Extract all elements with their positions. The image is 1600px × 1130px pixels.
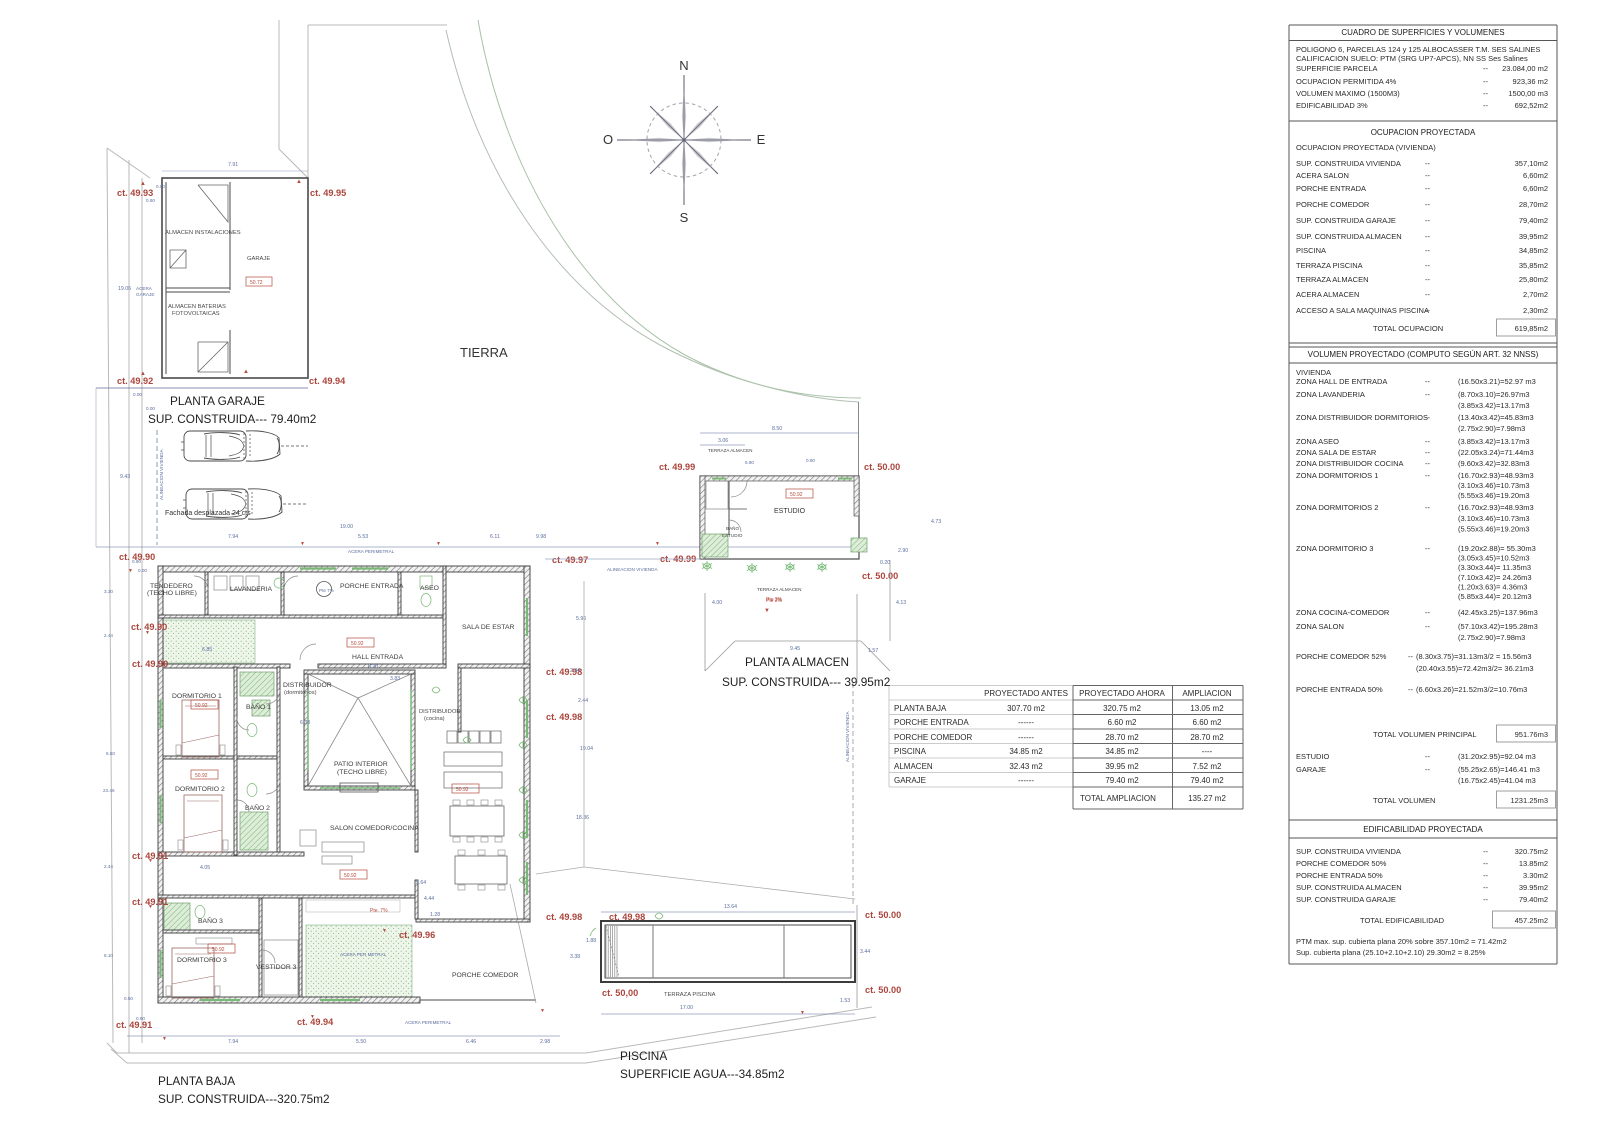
svg-text:VOLUMEN PROYECTADO (COMPUTO SE: VOLUMEN PROYECTADO (COMPUTO SEGÚN ART. 3…: [1308, 350, 1539, 359]
svg-text:23.084,00 m2: 23.084,00 m2: [1502, 64, 1548, 73]
svg-text:3.30: 3.30: [104, 589, 113, 594]
svg-text:39.95 m2: 39.95 m2: [1105, 762, 1139, 771]
svg-text:7.94: 7.94: [228, 1039, 238, 1045]
svg-text:PORCHE COMEDOR 50%: PORCHE COMEDOR 50%: [1296, 859, 1387, 868]
svg-text:3.06: 3.06: [718, 438, 728, 444]
svg-text:357,10m2: 357,10m2: [1515, 159, 1548, 168]
svg-text:34,85m2: 34,85m2: [1519, 246, 1548, 255]
svg-text:(42.45x3.25)=137.96m3: (42.45x3.25)=137.96m3: [1458, 608, 1538, 617]
svg-text:ZONA SALA DE ESTAR: ZONA SALA DE ESTAR: [1296, 448, 1377, 457]
svg-text:AMPLIACION: AMPLIACION: [1182, 689, 1232, 698]
svg-text:--: --: [1483, 883, 1488, 892]
svg-text:Fachada desplazada 24 cts: Fachada desplazada 24 cts: [165, 510, 251, 517]
svg-text:6.85: 6.85: [202, 647, 212, 653]
svg-text:39.95m2: 39.95m2: [1519, 883, 1548, 892]
svg-text:0.00: 0.00: [156, 184, 165, 189]
svg-text:--: --: [1408, 685, 1413, 694]
svg-text:ALMACEN INSTALACIONES: ALMACEN INSTALACIONES: [165, 230, 241, 236]
svg-text:13.64: 13.64: [724, 904, 737, 910]
svg-text:ZONA DISTRIBUIDOR DORMITORIOS: ZONA DISTRIBUIDOR DORMITORIOS: [1296, 413, 1428, 422]
svg-text:GARAJE: GARAJE: [894, 776, 926, 785]
svg-text:923,36 m2: 923,36 m2: [1513, 77, 1548, 86]
svg-text:(cocina): (cocina): [424, 716, 445, 722]
svg-text:3.44: 3.44: [860, 949, 870, 955]
svg-text:320.75 m2: 320.75 m2: [1103, 704, 1141, 713]
svg-text:(16.70x2.93)=48.93m3: (16.70x2.93)=48.93m3: [1458, 503, 1534, 512]
svg-text:▼: ▼: [310, 1014, 315, 1020]
svg-text:3.83: 3.83: [390, 676, 400, 682]
svg-text:(57.10x3.42)=195.28m3: (57.10x3.42)=195.28m3: [1458, 622, 1538, 631]
svg-text:PLANTA ALMACEN: PLANTA ALMACEN: [745, 655, 849, 669]
svg-text:--: --: [1425, 275, 1430, 284]
svg-text:TERRAZA PISCINA: TERRAZA PISCINA: [1296, 261, 1363, 270]
svg-text:FOTOVOLTAICAS: FOTOVOLTAICAS: [172, 311, 220, 317]
svg-text:▼: ▼: [540, 1008, 545, 1014]
svg-text:GARAJE: GARAJE: [136, 292, 154, 297]
svg-text:PROYECTADO AHORA: PROYECTADO AHORA: [1079, 689, 1165, 698]
svg-text:ASEO: ASEO: [420, 585, 439, 592]
svg-text:SUP. CONSTRUIDA ALMACEN: SUP. CONSTRUIDA ALMACEN: [1296, 883, 1402, 892]
svg-text:1.28: 1.28: [430, 912, 440, 918]
svg-text:TOTAL OCUPACION: TOTAL OCUPACION: [1373, 324, 1443, 333]
svg-text:6.20: 6.20: [368, 664, 378, 670]
svg-text:ZONA DORMITORIO 3: ZONA DORMITORIO 3: [1296, 544, 1373, 553]
svg-text:Sup. cubierta plana (25.10+2.1: Sup. cubierta plana (25.10+2.10+2.10) 29…: [1296, 948, 1486, 957]
svg-text:--: --: [1425, 503, 1430, 512]
svg-text:N: N: [679, 58, 688, 73]
svg-text:ct. 49.97: ct. 49.97: [552, 555, 588, 565]
svg-text:DORMITORIO 2: DORMITORIO 2: [175, 786, 225, 793]
svg-text:50.92: 50.92: [195, 773, 208, 779]
svg-text:PORCHE ENTRADA 50%: PORCHE ENTRADA 50%: [1296, 685, 1383, 694]
svg-text:ACERA PERIMETRAL: ACERA PERIMETRAL: [405, 1020, 452, 1025]
svg-text:ct. 50.00: ct. 50.00: [865, 985, 901, 995]
svg-text:(20.40x3.55)=72.42m3/2= 36.21m: (20.40x3.55)=72.42m3/2= 36.21m3: [1416, 664, 1534, 673]
svg-text:(7.10x3.42)= 24.26m3: (7.10x3.42)= 24.26m3: [1458, 573, 1532, 582]
svg-text:▼: ▼: [148, 858, 153, 864]
svg-text:50.92: 50.92: [790, 492, 803, 498]
svg-text:50.92: 50.92: [456, 787, 469, 793]
svg-text:VOLUMEN MAXIMO (1500M3): VOLUMEN MAXIMO (1500M3): [1296, 89, 1400, 98]
svg-text:(22.05x3.24)=71.44m3: (22.05x3.24)=71.44m3: [1458, 448, 1534, 457]
svg-text:TIERRA: TIERRA: [460, 345, 508, 360]
svg-text:(8.70x3.10)=26.97m3: (8.70x3.10)=26.97m3: [1458, 390, 1530, 399]
svg-text:9.45: 9.45: [790, 646, 800, 652]
svg-text:0.90: 0.90: [146, 198, 155, 203]
svg-text:SUP. CONSTRUIDA VIVIENDA: SUP. CONSTRUIDA VIVIENDA: [1296, 159, 1401, 168]
svg-text:39,95m2: 39,95m2: [1519, 232, 1548, 241]
svg-text:PORCHE COMEDOR: PORCHE COMEDOR: [1296, 200, 1370, 209]
svg-text:6.46: 6.46: [466, 1039, 476, 1045]
svg-text:9.43: 9.43: [120, 474, 130, 480]
svg-text:TERRAZA ALMACEN: TERRAZA ALMACEN: [708, 448, 752, 453]
svg-text:--: --: [1483, 89, 1488, 98]
svg-text:ct. 50,00: ct. 50,00: [602, 988, 638, 998]
svg-text:(3.85x3.42)=13.17m3: (3.85x3.42)=13.17m3: [1458, 437, 1530, 446]
svg-text:--: --: [1425, 544, 1430, 553]
svg-text:SUP. CONSTRUIDA---320.75m2: SUP. CONSTRUIDA---320.75m2: [158, 1092, 330, 1106]
svg-text:1.53: 1.53: [840, 998, 850, 1004]
svg-text:0.00: 0.00: [138, 568, 147, 573]
svg-text:BAÑO 1: BAÑO 1: [246, 702, 271, 711]
svg-text:SUP. CONSTRUIDA--- 79.40m2: SUP. CONSTRUIDA--- 79.40m2: [148, 412, 316, 426]
svg-text:5.64: 5.64: [416, 880, 426, 886]
svg-text:(16.50x3.21)=52.97 m3: (16.50x3.21)=52.97 m3: [1458, 377, 1536, 386]
svg-text:--: --: [1425, 377, 1430, 386]
svg-text:ct. 49.98: ct. 49.98: [546, 912, 582, 922]
svg-text:2.44: 2.44: [104, 633, 113, 638]
svg-text:PISCINA: PISCINA: [620, 1049, 667, 1063]
svg-text:ESTUDIO: ESTUDIO: [722, 533, 743, 538]
svg-text:ct. 49.94: ct. 49.94: [297, 1017, 334, 1027]
svg-text:(2.75x2.90)=7.98m3: (2.75x2.90)=7.98m3: [1458, 424, 1525, 433]
svg-text:951.76m3: 951.76m3: [1515, 730, 1548, 739]
svg-text:0.00: 0.00: [146, 406, 155, 411]
svg-text:ZONA DORMITORIOS 1: ZONA DORMITORIOS 1: [1296, 471, 1378, 480]
svg-text:PISCINA: PISCINA: [894, 747, 927, 756]
svg-text:DISTRIBUIDOR: DISTRIBUIDOR: [419, 709, 461, 715]
svg-text:ESTUDIO: ESTUDIO: [1296, 752, 1330, 761]
svg-text:OCUPACION PROYECTADA (VIVIENDA: OCUPACION PROYECTADA (VIVIENDA): [1296, 143, 1436, 152]
svg-text:SUP. CONSTRUIDA GARAJE: SUP. CONSTRUIDA GARAJE: [1296, 895, 1396, 904]
svg-text:BAÑO 3: BAÑO 3: [198, 916, 223, 925]
svg-text:17.00: 17.00: [680, 1005, 693, 1011]
svg-text:--: --: [1483, 101, 1488, 110]
svg-text:▼: ▼: [382, 928, 387, 934]
svg-text:▼: ▼: [436, 541, 441, 547]
svg-text:(3.85x3.42)=13.17m3: (3.85x3.42)=13.17m3: [1458, 401, 1530, 410]
svg-text:0.90: 0.90: [132, 559, 141, 564]
svg-text:6,60m2: 6,60m2: [1523, 171, 1548, 180]
svg-text:(13.40x3.42)=45.83m3: (13.40x3.42)=45.83m3: [1458, 413, 1534, 422]
svg-text:ct. 49.99: ct. 49.99: [659, 462, 695, 472]
svg-text:SUP. CONSTRUIDA ALMACEN: SUP. CONSTRUIDA ALMACEN: [1296, 232, 1402, 241]
svg-text:5.50: 5.50: [356, 1039, 366, 1045]
svg-text:ALINEACION VIVIENDA: ALINEACION VIVIENDA: [607, 567, 658, 572]
svg-text:50.92: 50.92: [195, 703, 208, 709]
svg-text:LAVANDERIA: LAVANDERIA: [230, 586, 273, 593]
svg-text:ACERA ALMACEN: ACERA ALMACEN: [1296, 290, 1359, 299]
svg-text:4.00: 4.00: [712, 600, 722, 606]
svg-text:9.98: 9.98: [536, 534, 546, 540]
svg-text:6.90: 6.90: [745, 460, 754, 465]
svg-text:ZONA DORMITORIOS 2: ZONA DORMITORIOS 2: [1296, 503, 1378, 512]
svg-text:19.04: 19.04: [580, 746, 593, 752]
svg-text:(5.55x3.46)=19.20m3: (5.55x3.46)=19.20m3: [1458, 491, 1530, 500]
svg-text:E: E: [757, 132, 766, 147]
svg-text:SUPERFICIE PARCELA: SUPERFICIE PARCELA: [1296, 64, 1378, 73]
svg-text:PORCHE ENTRADA 50%: PORCHE ENTRADA 50%: [1296, 871, 1383, 880]
svg-text:▼: ▼: [800, 1010, 805, 1016]
svg-text:2.44: 2.44: [104, 864, 113, 869]
svg-text:--: --: [1483, 847, 1488, 856]
svg-text:Pte. 7%: Pte. 7%: [370, 908, 388, 914]
svg-text:EDIFICABILIDAD 3%: EDIFICABILIDAD 3%: [1296, 101, 1368, 110]
svg-text:--: --: [1483, 859, 1488, 868]
svg-text:Pte 7%: Pte 7%: [319, 588, 334, 593]
svg-text:------: ------: [1018, 733, 1034, 742]
svg-text:ct. 49.94: ct. 49.94: [309, 376, 346, 386]
svg-text:(2.75x2.90)=7.98m3: (2.75x2.90)=7.98m3: [1458, 633, 1525, 642]
svg-text:EDIFICABILIDAD PROYECTADA: EDIFICABILIDAD PROYECTADA: [1363, 825, 1483, 834]
svg-text:PISCINA: PISCINA: [1296, 246, 1326, 255]
svg-text:0.90: 0.90: [136, 1016, 145, 1021]
svg-text:SUP. CONSTRUIDA GARAJE: SUP. CONSTRUIDA GARAJE: [1296, 216, 1396, 225]
svg-text:--: --: [1425, 246, 1430, 255]
svg-text:ct. 49.90: ct. 49.90: [132, 659, 168, 669]
svg-text:▼: ▼: [145, 630, 150, 636]
svg-text:ct. 49.92: ct. 49.92: [117, 376, 153, 386]
svg-text:19.00: 19.00: [340, 524, 353, 530]
svg-text:--: --: [1425, 622, 1430, 631]
svg-text:ACERA: ACERA: [136, 286, 153, 291]
svg-text:PORCHE ENTRADA: PORCHE ENTRADA: [894, 718, 969, 727]
svg-text:VIVIENDA: VIVIENDA: [1296, 368, 1331, 377]
svg-text:--: --: [1483, 77, 1488, 86]
svg-text:5.96: 5.96: [576, 616, 586, 622]
svg-text:19.06: 19.06: [118, 286, 131, 292]
svg-text:1231.25m3: 1231.25m3: [1510, 796, 1548, 805]
svg-text:ZONA LAVANDERIA: ZONA LAVANDERIA: [1296, 390, 1365, 399]
svg-text:(16.75x2.45)=41.04 m3: (16.75x2.45)=41.04 m3: [1458, 776, 1536, 785]
svg-text:ACERA PER METRAL: ACERA PER METRAL: [340, 952, 387, 957]
svg-text:GARAJE: GARAJE: [247, 256, 270, 262]
svg-text:2.98: 2.98: [540, 1039, 550, 1045]
svg-text:ct. 50.00: ct. 50.00: [862, 571, 898, 581]
svg-text:ALMACEN BATERIAS: ALMACEN BATERIAS: [168, 304, 226, 310]
svg-text:ACCESO A SALA MAQUINAS PISCINA: ACCESO A SALA MAQUINAS PISCINA: [1296, 306, 1429, 315]
svg-text:79.40 m2: 79.40 m2: [1190, 776, 1224, 785]
svg-text:SUPERFICIE AGUA---34.85m2: SUPERFICIE AGUA---34.85m2: [620, 1067, 785, 1081]
svg-text:ZONA SALON: ZONA SALON: [1296, 622, 1344, 631]
svg-text:PORCHE ENTRADA: PORCHE ENTRADA: [1296, 184, 1366, 193]
svg-text:2.44: 2.44: [578, 698, 588, 704]
svg-text:619,85m2: 619,85m2: [1515, 324, 1548, 333]
svg-text:GARAJE: GARAJE: [1296, 765, 1326, 774]
svg-text:6.60 m2: 6.60 m2: [1108, 718, 1137, 727]
svg-text:ct. 50.00: ct. 50.00: [864, 462, 900, 472]
svg-text:PLANTA BAJA: PLANTA BAJA: [158, 1074, 235, 1088]
svg-text:▼: ▼: [764, 608, 770, 614]
svg-text:DISTRIBUIDOR: DISTRIBUIDOR: [283, 682, 332, 689]
svg-text:50.92: 50.92: [212, 947, 225, 953]
svg-text:▼: ▼: [655, 541, 660, 547]
svg-text:ct. 49.93: ct. 49.93: [117, 188, 153, 198]
svg-text:(3.10x3.46)=10.73m3: (3.10x3.46)=10.73m3: [1458, 514, 1530, 523]
svg-text:4.13: 4.13: [896, 600, 906, 606]
svg-text:--: --: [1425, 232, 1430, 241]
svg-text:TOTAL VOLUMEN PRINCIPAL: TOTAL VOLUMEN PRINCIPAL: [1373, 730, 1477, 739]
svg-text:--: --: [1425, 200, 1430, 209]
svg-text:50.92: 50.92: [344, 873, 357, 879]
svg-text:(8.30x3.75)=31.13m3/2 = 15.56m: (8.30x3.75)=31.13m3/2 = 15.56m3: [1416, 652, 1532, 661]
svg-text:BAÑO: BAÑO: [726, 525, 739, 531]
svg-text:28.70 m2: 28.70 m2: [1190, 733, 1224, 742]
svg-text:3.38: 3.38: [570, 954, 580, 960]
svg-text:--: --: [1425, 261, 1430, 270]
svg-text:457.25m2: 457.25m2: [1515, 916, 1548, 925]
svg-text:(55.25x2.65)=146.41 m3: (55.25x2.65)=146.41 m3: [1458, 765, 1540, 774]
svg-text:6.60 m2: 6.60 m2: [1193, 718, 1222, 727]
svg-text:(16.70x2.93)=48.93m3: (16.70x2.93)=48.93m3: [1458, 471, 1534, 480]
svg-text:--: --: [1425, 413, 1430, 422]
svg-text:▼: ▼: [128, 568, 133, 574]
svg-text:--: --: [1425, 184, 1430, 193]
svg-text:2.90: 2.90: [898, 548, 908, 554]
svg-text:ALINEACION VIVIENDA: ALINEACION VIVIENDA: [845, 711, 850, 762]
svg-text:(19.20x2.88)= 55.30m3: (19.20x2.88)= 55.30m3: [1458, 544, 1536, 553]
svg-text:28.70 m2: 28.70 m2: [1105, 733, 1139, 742]
svg-text:34.85 m2: 34.85 m2: [1105, 747, 1139, 756]
svg-text:PROYECTADO ANTES: PROYECTADO ANTES: [984, 689, 1068, 698]
svg-text:▼: ▼: [148, 904, 153, 910]
svg-text:18.36: 18.36: [576, 815, 589, 821]
svg-text:28,70m2: 28,70m2: [1519, 200, 1548, 209]
svg-text:--: --: [1425, 459, 1430, 468]
svg-text:PORCHE COMEDOR: PORCHE COMEDOR: [452, 972, 519, 979]
svg-text:TERRAZA ALMACEN: TERRAZA ALMACEN: [1296, 275, 1369, 284]
svg-text:2.44: 2.44: [570, 668, 580, 674]
svg-text:VESTIDOR 3: VESTIDOR 3: [256, 964, 297, 971]
svg-text:--: --: [1425, 159, 1430, 168]
svg-text:ct. 49.95: ct. 49.95: [310, 188, 346, 198]
svg-text:(TECHO LIBRE): (TECHO LIBRE): [147, 590, 197, 597]
svg-text:O: O: [603, 132, 613, 147]
svg-text:PORCHE COMEDOR: PORCHE COMEDOR: [894, 733, 972, 742]
svg-text:307.70 m2: 307.70 m2: [1007, 704, 1045, 713]
svg-text:TOTAL EDIFICABILIDAD: TOTAL EDIFICABILIDAD: [1360, 916, 1445, 925]
svg-text:2,70m2: 2,70m2: [1523, 290, 1548, 299]
svg-text:(TECHO LIBRE): (TECHO LIBRE): [337, 769, 387, 776]
svg-text:50.72: 50.72: [250, 280, 263, 286]
svg-text:4.44: 4.44: [424, 896, 434, 902]
svg-text:(31.20x2.95)=92.04 m3: (31.20x2.95)=92.04 m3: [1458, 752, 1536, 761]
svg-text:(3.30x3.44)= 11.35m3: (3.30x3.44)= 11.35m3: [1458, 563, 1531, 572]
svg-text:SALON COMEDOR/COCINA: SALON COMEDOR/COCINA: [330, 825, 419, 832]
svg-text:OCUPACION PERMITIDA 4%: OCUPACION PERMITIDA 4%: [1296, 77, 1397, 86]
svg-text:OCUPACION PROYECTADA: OCUPACION PROYECTADA: [1371, 128, 1476, 137]
svg-text:1500,00 m3: 1500,00 m3: [1508, 89, 1548, 98]
svg-text:13.05 m2: 13.05 m2: [1190, 704, 1224, 713]
svg-text:ACERA SALON: ACERA SALON: [1296, 171, 1349, 180]
svg-text:ACERA PERIMETRAL: ACERA PERIMETRAL: [348, 549, 395, 554]
svg-text:6.11: 6.11: [490, 534, 500, 540]
svg-text:▲: ▲: [296, 179, 302, 185]
svg-text:25,80m2: 25,80m2: [1519, 275, 1548, 284]
svg-text:▼: ▼: [162, 1036, 167, 1042]
svg-text:ct. 50.00: ct. 50.00: [865, 910, 901, 920]
svg-text:32.43 m2: 32.43 m2: [1009, 762, 1043, 771]
svg-text:(dormitorios): (dormitorios): [284, 690, 317, 696]
svg-text:▼: ▼: [300, 541, 305, 547]
svg-text:13.85m2: 13.85m2: [1519, 859, 1548, 868]
svg-text:S: S: [680, 210, 689, 225]
svg-text:320.75m2: 320.75m2: [1515, 847, 1548, 856]
svg-text:--: --: [1425, 765, 1430, 774]
svg-text:79.40m2: 79.40m2: [1519, 895, 1548, 904]
svg-text:4.73: 4.73: [931, 519, 941, 525]
svg-text:8.10: 8.10: [104, 953, 113, 958]
svg-text:(5.85x3.44)= 20.12m3: (5.85x3.44)= 20.12m3: [1458, 592, 1532, 601]
svg-text:--: --: [1425, 437, 1430, 446]
svg-text:79.40 m2: 79.40 m2: [1105, 776, 1139, 785]
svg-text:ZONA ASEO: ZONA ASEO: [1296, 437, 1339, 446]
svg-text:ct. 49.96: ct. 49.96: [399, 930, 435, 940]
svg-text:--: --: [1408, 652, 1413, 661]
svg-text:▲: ▲: [243, 369, 249, 375]
svg-text:TOTAL AMPLIACION: TOTAL AMPLIACION: [1080, 794, 1156, 803]
svg-text:ZONA COCINA-COMEDOR: ZONA COCINA-COMEDOR: [1296, 608, 1390, 617]
svg-text:7.91: 7.91: [228, 162, 238, 168]
svg-text:POLIGONO 6, PARCELAS 124 y 125: POLIGONO 6, PARCELAS 124 y 125 ALBOCASSE…: [1296, 45, 1540, 54]
svg-text:--: --: [1425, 171, 1430, 180]
svg-text:5.53: 5.53: [358, 534, 368, 540]
svg-text:DORMITORIO 1: DORMITORIO 1: [172, 693, 222, 700]
svg-text:SALA DE ESTAR: SALA DE ESTAR: [462, 624, 514, 631]
svg-text:TENDEDERO: TENDEDERO: [150, 583, 193, 590]
svg-text:6,60m2: 6,60m2: [1523, 184, 1548, 193]
svg-text:--: --: [1425, 306, 1430, 315]
svg-text:35,85m2: 35,85m2: [1519, 261, 1548, 270]
svg-text:6.50: 6.50: [106, 751, 115, 756]
svg-text:--: --: [1425, 608, 1430, 617]
svg-text:PORCHE ENTRADA: PORCHE ENTRADA: [340, 583, 404, 590]
svg-text:692,52m2: 692,52m2: [1515, 101, 1548, 110]
svg-text:1.88: 1.88: [586, 938, 596, 944]
svg-text:HALL ENTRADA: HALL ENTRADA: [352, 654, 404, 661]
svg-text:0.50: 0.50: [124, 996, 133, 1001]
svg-text:PORCHE COMEDOR 52%: PORCHE COMEDOR 52%: [1296, 652, 1387, 661]
svg-text:--: --: [1483, 871, 1488, 880]
svg-text:8.50: 8.50: [772, 426, 782, 432]
svg-text:ct. 49.98: ct. 49.98: [546, 712, 582, 722]
svg-text:(3.10x3.46)=10.73m3: (3.10x3.46)=10.73m3: [1458, 481, 1530, 490]
svg-text:--: --: [1425, 471, 1430, 480]
svg-text:4.05: 4.05: [200, 865, 210, 871]
svg-text:1.57: 1.57: [868, 648, 878, 654]
svg-text:7.94: 7.94: [228, 534, 238, 540]
svg-text:SUP. CONSTRUIDA--- 39.95m2: SUP. CONSTRUIDA--- 39.95m2: [722, 675, 890, 689]
svg-text:TERRAZA ALMACEN: TERRAZA ALMACEN: [757, 587, 801, 592]
svg-text:(5.55x3.46)=19.20m3: (5.55x3.46)=19.20m3: [1458, 525, 1530, 534]
svg-text:34.85 m2: 34.85 m2: [1009, 747, 1043, 756]
svg-text:PLANTA GARAJE: PLANTA GARAJE: [170, 394, 265, 408]
svg-text:------: ------: [1018, 776, 1034, 785]
svg-text:PATIO INTERIOR: PATIO INTERIOR: [334, 761, 388, 768]
svg-text:TERRAZA PISCINA: TERRAZA PISCINA: [664, 992, 716, 998]
svg-text:0.00: 0.00: [133, 392, 142, 397]
svg-text:ALMACEN: ALMACEN: [894, 762, 933, 771]
svg-text:CALIFICACION SUELO: PTM (SRG: CALIFICACION SUELO: PTM (SRG UP7-APCS), …: [1296, 54, 1528, 63]
svg-text:ZONA HALL DE ENTRADA: ZONA HALL DE ENTRADA: [1296, 377, 1387, 386]
svg-text:0.90: 0.90: [806, 458, 815, 463]
svg-text:--: --: [1425, 390, 1430, 399]
svg-text:--: --: [1483, 895, 1488, 904]
svg-text:3.30m2: 3.30m2: [1523, 871, 1548, 880]
svg-text:135.27 m2: 135.27 m2: [1188, 794, 1226, 803]
svg-text:ZONA DISTRIBUIDOR COCINA: ZONA DISTRIBUIDOR COCINA: [1296, 459, 1404, 468]
svg-text:6.38: 6.38: [300, 720, 310, 726]
svg-text:--: --: [1425, 290, 1430, 299]
svg-text:CUADRO DE SUPERFICIES Y VOLUME: CUADRO DE SUPERFICIES Y VOLUMENES: [1341, 28, 1504, 37]
svg-text:(3.05x3.45)=10.52m3: (3.05x3.45)=10.52m3: [1458, 554, 1530, 563]
svg-text:--: --: [1425, 216, 1430, 225]
svg-text:2,30m2: 2,30m2: [1523, 306, 1548, 315]
svg-text:TOTAL VOLUMEN: TOTAL VOLUMEN: [1373, 796, 1435, 805]
svg-text:(1.20x3.63)= 4.36m3: (1.20x3.63)= 4.36m3: [1458, 582, 1527, 591]
svg-text:DORMITORIO 3: DORMITORIO 3: [177, 957, 227, 964]
svg-text:23.46: 23.46: [103, 788, 115, 793]
